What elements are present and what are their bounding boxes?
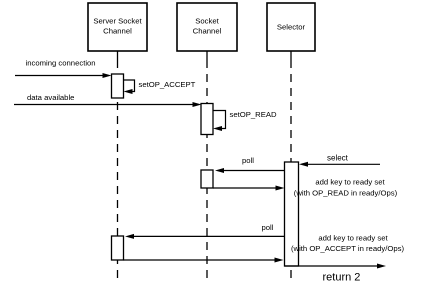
arrow poll 1 <box>215 168 285 173</box>
activation A5 on Server Socket Channel <box>112 236 124 260</box>
svg-text:(with OP_ACCEPT in ready/Ops): (with OP_ACCEPT in ready/Ops) <box>291 244 405 253</box>
arrow incoming connection <box>15 73 112 78</box>
svg-text:add key to ready set: add key to ready set <box>315 178 385 187</box>
self-call loop setOP_READ <box>213 111 226 132</box>
actor box Socket Channel <box>177 3 237 51</box>
self-call loop setOP_ACCEPT <box>124 80 135 94</box>
svg-text:incoming connection: incoming connection <box>26 59 96 68</box>
arrow data available <box>14 102 202 107</box>
lifeline Selector <box>290 51 292 279</box>
actor box Selector <box>267 3 315 51</box>
arrow poll 1 return <box>213 186 285 191</box>
svg-text:poll: poll <box>262 223 274 232</box>
svg-text:Channel: Channel <box>193 27 222 36</box>
svg-text:setOP_READ: setOP_READ <box>230 110 277 119</box>
activation A4 on Selector <box>285 162 299 266</box>
activation A3 on Socket Channel <box>201 170 213 188</box>
arrow poll 2 return <box>124 258 284 263</box>
svg-text:Selector: Selector <box>277 23 306 32</box>
svg-text:Socket: Socket <box>195 17 219 26</box>
svg-text:return 2: return 2 <box>323 272 361 284</box>
svg-text:Server Socket: Server Socket <box>93 17 142 26</box>
arrow select <box>299 162 380 167</box>
svg-text:add key to ready set: add key to ready set <box>318 234 388 243</box>
svg-text:poll: poll <box>242 156 254 165</box>
svg-text:(with OP_READ in ready/Ops): (with OP_READ in ready/Ops) <box>294 189 398 198</box>
lifeline Server Socket Channel <box>117 51 119 279</box>
lifeline Socket Channel <box>206 51 208 279</box>
arrow return 2 <box>285 264 387 269</box>
arrow poll 2 <box>125 234 285 239</box>
actor box Server Socket Channel <box>88 3 147 51</box>
activation A2 on Socket Channel <box>201 104 213 135</box>
activation A1 on Server Socket Channel <box>112 74 124 98</box>
svg-text:select: select <box>327 154 349 163</box>
svg-text:setOP_ACCEPT: setOP_ACCEPT <box>139 80 196 89</box>
svg-text:Channel: Channel <box>103 27 132 36</box>
svg-text:data available: data available <box>27 93 74 102</box>
